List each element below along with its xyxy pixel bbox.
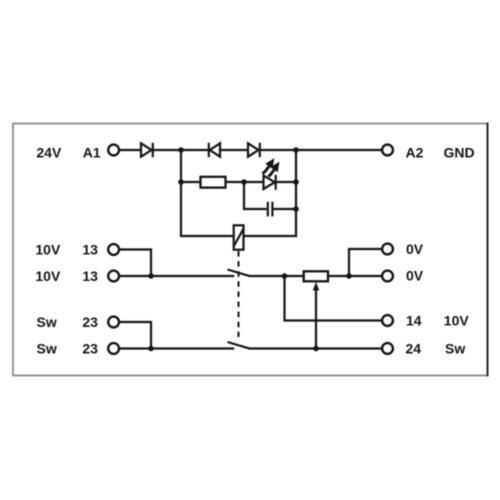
svg-text:24: 24: [406, 341, 422, 357]
svg-text:24V: 24V: [36, 144, 62, 160]
svg-text:Sw: Sw: [37, 341, 57, 357]
svg-text:A2: A2: [406, 144, 424, 160]
svg-text:10V: 10V: [444, 313, 470, 329]
svg-text:13: 13: [82, 268, 98, 284]
svg-text:0V: 0V: [406, 241, 424, 257]
svg-text:23: 23: [82, 341, 98, 357]
svg-text:10V: 10V: [35, 242, 61, 258]
svg-text:A1: A1: [83, 144, 101, 160]
svg-text:13: 13: [82, 242, 98, 258]
svg-text:23: 23: [82, 314, 98, 330]
svg-text:Sw: Sw: [445, 341, 465, 357]
svg-text:GND: GND: [444, 144, 475, 160]
svg-text:0V: 0V: [406, 268, 424, 284]
svg-text:14: 14: [406, 313, 422, 329]
svg-text:Sw: Sw: [37, 314, 57, 330]
svg-text:10V: 10V: [35, 268, 61, 284]
